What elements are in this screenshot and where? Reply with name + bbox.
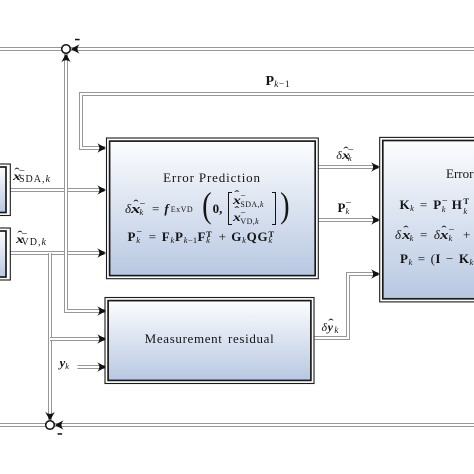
arrowhead: VD branch into Measurement residual <box>97 334 106 344</box>
arrowhead: delta y into Error Update <box>371 269 380 279</box>
box SDA estimator (cut off at left) <box>0 164 10 216</box>
Error Prediction box title <box>106 171 318 184</box>
label delta x_k^- (wire) <box>336 149 354 161</box>
wire: P_k^- from Error Prediction to Error Update <box>318 218 378 222</box>
wire: vertical from top junction to measurement residual input 1 <box>66 53 105 311</box>
box VD estimator (cut off at left) <box>0 228 10 280</box>
label P_{k-1} <box>266 75 291 89</box>
wire: delta x_k^- from Error Prediction to Error Update <box>318 165 378 169</box>
arrowhead: y_k into Measurement residual <box>97 362 106 372</box>
wire: branch to measurement residual input 2 <box>50 337 105 341</box>
arrowhead: state feedback into Measurement residual <box>97 306 106 316</box>
Measurement residual box title <box>105 332 314 345</box>
label delta y_k (wire) <box>322 321 339 333</box>
Error Update box title (cut off) <box>446 167 474 180</box>
wire: branch from VD line down to bottom junction <box>48 253 52 420</box>
label y_k <box>60 356 70 369</box>
box Error Update (cut off at right) <box>380 137 474 302</box>
label P_k^- (wire) <box>338 201 353 214</box>
Error Update equation 1 <box>400 198 474 211</box>
wire: bottom feedback line <box>0 423 474 427</box>
box Measurement residual <box>105 298 314 384</box>
top summing junction <box>61 39 79 63</box>
arrowhead: x_VD into Error Prediction <box>97 248 106 258</box>
Error Update equation 2 <box>395 228 474 241</box>
arrowhead: P_k^- into Error Update <box>371 215 380 225</box>
arrowhead: P_{k-1} into Error Prediction <box>97 143 106 153</box>
wire: P_{k-1} feedback <box>81 94 474 148</box>
label x_VD,k^- <box>16 233 49 245</box>
wire: x_VD output <box>10 251 105 255</box>
Error Prediction equation 1 <box>125 191 291 226</box>
bottom summing junction <box>45 412 63 435</box>
label x_SDA,k^- <box>13 170 50 182</box>
arrowhead: delta x into Error Update <box>371 162 380 172</box>
Error Update equation 3 <box>400 252 474 265</box>
wire: y_k input <box>78 365 105 369</box>
wire: delta y_k from Measurement residual to Error Update <box>314 274 378 338</box>
wire: x_SDA output <box>10 188 105 192</box>
box Error Prediction <box>107 138 319 279</box>
Error Prediction equation 2 <box>128 230 277 243</box>
wire: top feedback line <box>0 47 474 51</box>
arrowhead: x_SDA into Error Prediction <box>97 185 106 195</box>
